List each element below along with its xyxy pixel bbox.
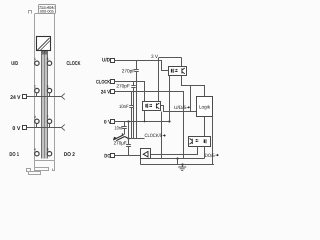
arrow 0V row bbox=[61, 124, 64, 130]
module bottom edge bbox=[35, 160, 55, 162]
U1 LED bbox=[171, 69, 172, 73]
arrow DO/5 bbox=[216, 154, 219, 156]
wire opto2 cathode return bbox=[144, 111, 146, 122]
jumper diagonal 2 bbox=[40, 41, 50, 51]
svg-text:Logik: Logik bbox=[199, 104, 211, 110]
ground bus bbox=[141, 164, 215, 166]
arrow 24V row bbox=[61, 93, 64, 99]
stem 24V right bbox=[49, 93, 51, 97]
wire bus link bbox=[177, 159, 179, 165]
wire opto3 out to driver bbox=[151, 147, 198, 155]
arrow U/D/5 bbox=[187, 106, 190, 108]
junction bus bbox=[176, 157, 178, 159]
module foot block C bbox=[27, 169, 31, 172]
wire opto2 output to logic bbox=[161, 106, 197, 112]
svg-text:DO/5: DO/5 bbox=[205, 153, 215, 159]
svg-text:U/D: U/D bbox=[102, 58, 110, 64]
filter node rail bbox=[129, 138, 145, 140]
module foot slat A bbox=[35, 168, 49, 171]
gray contact band bbox=[41, 51, 48, 159]
junction ground bbox=[181, 163, 183, 165]
U1 phototransistor bbox=[182, 68, 185, 74]
terminal mark 0V bbox=[23, 126, 27, 130]
capacitor C4 10nF bbox=[122, 122, 127, 135]
svg-text:U/D: U/D bbox=[11, 61, 18, 67]
svg-text:DO 2: DO 2 bbox=[64, 152, 75, 158]
ground symbol bbox=[178, 165, 186, 171]
driver box bbox=[141, 149, 151, 159]
svg-text:1: 1 bbox=[34, 57, 36, 61]
terminal circle pin 3 bbox=[35, 119, 39, 123]
svg-text:2: 2 bbox=[34, 84, 36, 88]
svg-text:10nF: 10nF bbox=[114, 125, 123, 131]
module foot slat B bbox=[29, 172, 41, 175]
svg-text:8: 8 bbox=[47, 148, 49, 152]
order number box bbox=[39, 5, 56, 14]
svg-text:270pF: 270pF bbox=[116, 84, 129, 90]
U2 arrows bbox=[149, 104, 152, 106]
svg-text:7: 7 bbox=[47, 115, 49, 119]
suppressor diode bbox=[114, 134, 129, 141]
arrow CLOCK/5 bbox=[163, 135, 166, 137]
driver ground stub bbox=[140, 159, 142, 165]
module foot right notch bbox=[53, 169, 55, 171]
U3 phototransistor bbox=[190, 138, 193, 144]
wire opto1 cathode return bbox=[169, 76, 171, 122]
module latch tab bbox=[29, 11, 32, 14]
svg-text:24 V: 24 V bbox=[101, 90, 111, 96]
capacitor C5 270uF bbox=[126, 122, 131, 156]
U1 arrows bbox=[175, 69, 178, 71]
wire 24V rail bbox=[114, 92, 183, 159]
svg-text:0 V: 0 V bbox=[12, 126, 20, 132]
pad CLOCK bbox=[111, 80, 115, 84]
terminal circle pin 2 bbox=[35, 88, 39, 92]
svg-text:5: 5 bbox=[47, 57, 49, 61]
U2 LED bbox=[145, 104, 146, 108]
wire 0V rail bbox=[114, 121, 169, 123]
3V drop to opto1 bbox=[181, 58, 183, 67]
U3 arrows bbox=[196, 139, 199, 142]
wire DO output bbox=[114, 155, 140, 157]
wire clockout drop to bus bbox=[161, 112, 163, 159]
svg-text:24 V: 24 V bbox=[10, 95, 21, 101]
driver triangle bbox=[143, 151, 148, 157]
svg-text:CLOCK: CLOCK bbox=[96, 79, 110, 85]
wire logic out to bus bbox=[204, 117, 206, 159]
svg-text:4: 4 bbox=[34, 148, 36, 152]
junction 0V filter node bbox=[127, 120, 129, 122]
svg-text:CLOCK: CLOCK bbox=[67, 61, 81, 67]
optocoupler U3 box bbox=[189, 137, 211, 147]
svg-text:10nF: 10nF bbox=[119, 104, 129, 110]
terminal mark 24V bbox=[23, 95, 27, 99]
svg-text:DO 1: DO 1 bbox=[9, 152, 19, 158]
order number divider bbox=[38, 8, 56, 10]
pad 24V bbox=[111, 90, 115, 94]
U3 LED bbox=[204, 139, 205, 143]
module left edge bbox=[34, 14, 36, 161]
stem 24V left bbox=[36, 93, 38, 97]
stem 0V left bbox=[36, 124, 38, 128]
module foot left edge bbox=[34, 160, 36, 168]
module foot right edge bbox=[54, 160, 56, 171]
band hatch bbox=[43, 51, 47, 55]
wire CLOCK input bbox=[114, 82, 144, 102]
stem 0V right bbox=[49, 124, 51, 128]
pad U/D bbox=[111, 59, 115, 63]
jumper diagonal 1 bbox=[38, 38, 50, 50]
wire 24V row bbox=[27, 96, 61, 98]
terminal circle pin 7 bbox=[47, 119, 51, 123]
capacitor C2 270pF bbox=[131, 82, 135, 139]
3V rail bbox=[159, 57, 182, 59]
optocoupler U2 box bbox=[143, 102, 161, 111]
module right edge bbox=[54, 14, 56, 161]
3V drop to opto2 bbox=[158, 58, 160, 102]
wire drop to clockout line bbox=[190, 86, 192, 112]
terminal circle pin 5 bbox=[47, 61, 51, 65]
terminal circle pin 8 bbox=[47, 152, 51, 156]
bus 158 bbox=[151, 158, 205, 160]
band center line bbox=[44, 51, 46, 159]
power jumper square bbox=[37, 37, 51, 51]
svg-text:3 V: 3 V bbox=[151, 54, 159, 60]
wire U/D input bbox=[114, 61, 168, 71]
terminal circle pin 6 bbox=[47, 88, 51, 92]
svg-text:CLOCK/5: CLOCK/5 bbox=[145, 133, 163, 139]
band left edge bbox=[41, 51, 43, 159]
svg-text:DO: DO bbox=[104, 154, 110, 160]
terminal circle pin 1 bbox=[35, 61, 39, 65]
optocoupler U1 box bbox=[169, 67, 187, 76]
capacitor C1 270pF bbox=[134, 61, 138, 139]
junction 0V opto return bbox=[168, 120, 170, 122]
svg-text:6: 6 bbox=[47, 84, 49, 88]
logic box bbox=[197, 97, 213, 117]
band right edge bbox=[47, 51, 49, 159]
terminal circle pin 4 bbox=[35, 152, 39, 156]
svg-text:270µF: 270µF bbox=[114, 140, 127, 146]
svg-text:000-005: 000-005 bbox=[40, 10, 54, 14]
svg-text:3: 3 bbox=[34, 115, 36, 119]
wire logic right out down bbox=[212, 117, 214, 165]
junction opto2 return bbox=[144, 121, 146, 123]
capacitor C3 10nF bbox=[129, 92, 133, 139]
svg-text:U/D/5: U/D/5 bbox=[174, 105, 187, 111]
U2 phototransistor bbox=[156, 103, 159, 109]
wire opto1 emitter to logic bbox=[182, 76, 205, 97]
svg-text:270pF: 270pF bbox=[122, 68, 135, 74]
pad DO bbox=[111, 154, 115, 158]
module top edge bbox=[35, 13, 55, 15]
wire 0V row bbox=[27, 127, 61, 129]
pad 0V bbox=[111, 120, 115, 124]
junction node bbox=[127, 137, 129, 139]
